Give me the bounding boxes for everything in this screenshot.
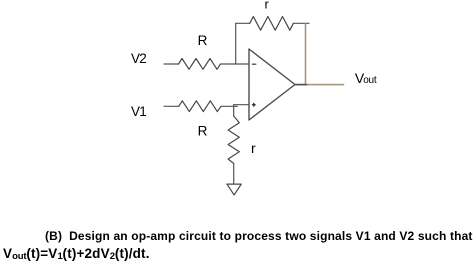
- resistor r (feedback): [250, 17, 294, 31]
- resistor r (to ground): [228, 116, 239, 164]
- svg-text:r: r: [251, 140, 256, 156]
- caption line 2 (formula): [3, 246, 150, 262]
- wire feedback top left: [236, 22, 250, 24]
- wire feedback left vertical: [235, 23, 237, 64]
- caption line 1: [45, 229, 473, 243]
- wire output stub from op-amp: [295, 84, 307, 86]
- wire V2 resistor to inverting input: [221, 63, 250, 65]
- op-amp non-inverting pin mark: [253, 104, 256, 107]
- wire output (tan): [297, 84, 344, 86]
- wire jog at node to non-inverting input: [234, 105, 249, 107]
- svg-text:V1: V1: [131, 104, 146, 119]
- resistor R (V2 branch): [179, 59, 221, 70]
- svg-text:V2: V2: [131, 51, 146, 66]
- wire V1 resistor to junction: [221, 105, 237, 107]
- wire V1 input lead: [164, 105, 179, 107]
- ground: [227, 184, 241, 195]
- wire resistor to ground: [233, 164, 235, 184]
- wire feedback top right: [293, 22, 309, 24]
- wire non-inverting node down: [233, 106, 235, 116]
- resistor R (V1 branch): [179, 101, 221, 112]
- wire V2 input lead: [164, 63, 179, 65]
- wire feedback right vertical (tan): [305, 24, 307, 85]
- svg-text:R: R: [198, 33, 208, 48]
- svg-text:out: out: [363, 75, 377, 86]
- svg-text:R: R: [198, 124, 208, 139]
- svg-text:r: r: [265, 0, 270, 12]
- op-amp inverting pin mark: [252, 63, 256, 65]
- op-amp U1: [249, 49, 295, 120]
